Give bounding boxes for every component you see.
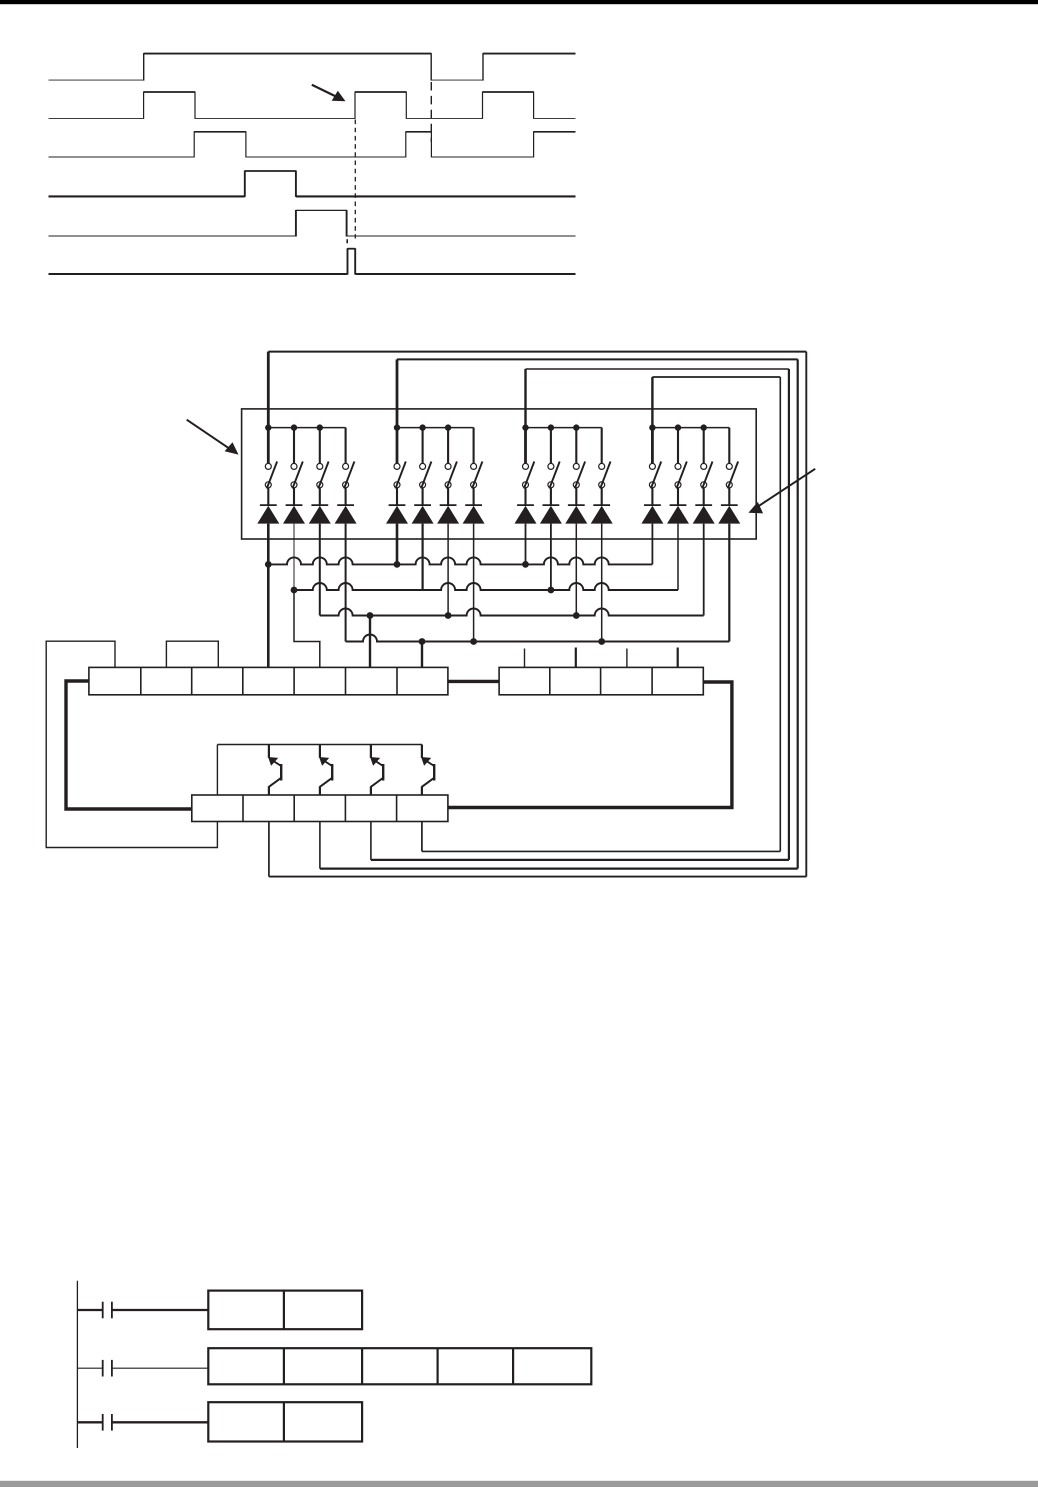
wire: column g2c4 to row4: [473, 524, 475, 642]
wire: column g3c4 to row4: [601, 524, 603, 642]
shift register A (left section, 7 cells): [89, 667, 448, 694]
transistor Q4: [421, 745, 434, 796]
switch S3: [317, 428, 329, 489]
diode D11: [565, 488, 587, 524]
wire: column g2c3 to row3: [447, 524, 449, 616]
diode D16: [718, 488, 740, 524]
transistor Q3: [370, 745, 383, 796]
diode D1: [257, 488, 279, 524]
transistor Q2: [319, 745, 332, 796]
wire: outer left loop: [46, 641, 217, 847]
wire: column g2c2 to row2: [422, 524, 424, 590]
diode D5: [386, 488, 408, 524]
switch S4: [343, 428, 355, 489]
node line group 3: [522, 424, 601, 430]
switch S16: [726, 428, 738, 489]
feedback loop C (cell4 to group3 bus): [371, 369, 789, 860]
diode D13: [641, 488, 663, 524]
wire: row 3 drop to register: [369, 616, 371, 668]
waveform W5: [49, 210, 576, 237]
diode D4: [335, 488, 357, 524]
diode D7: [437, 488, 459, 524]
node line group 4: [649, 424, 729, 430]
switch S8: [471, 428, 483, 489]
rung 2 function block (5 cells): [208, 1348, 591, 1384]
wire: register B cell1 top: [216, 745, 218, 796]
dashed reference line: [430, 82, 432, 142]
switch S2: [291, 428, 303, 489]
rung 3 contact: [77, 1414, 208, 1431]
wire: row 3: [320, 609, 704, 619]
switch S11: [573, 428, 585, 489]
feedback loop B (cell3 to group2 bus): [320, 359, 798, 868]
wire: staple bridge cells 2-3: [166, 641, 218, 667]
wire: column g4c3 to row3: [703, 524, 705, 616]
dash mark at W6 pulse: [346, 239, 348, 243]
switch S6: [420, 428, 432, 489]
stubs above right register cells: [525, 648, 678, 668]
waveform W3: [49, 131, 576, 157]
wire: column g4c1 to row1: [651, 524, 653, 565]
wire: row 4: [346, 635, 730, 645]
rung 1 contact: [77, 1302, 208, 1319]
switch S9: [523, 428, 535, 489]
wire: register A sections link: [448, 680, 499, 683]
wire: row 2: [291, 583, 678, 593]
switch S5: [394, 428, 406, 489]
node line group 2: [394, 424, 474, 430]
shift register B (5 cells): [192, 795, 448, 822]
wire: column g3c3 to row3: [575, 524, 577, 616]
arrow pointer to diode row: [748, 469, 815, 514]
shift register A (right section, 4 cells): [499, 667, 703, 694]
transistor Q1: [268, 745, 281, 796]
wire: row 1: [265, 557, 653, 567]
wire: column g2c1 to row1: [396, 524, 399, 565]
switch S15: [701, 428, 713, 489]
ladder left power rail: [76, 1281, 78, 1448]
diode D8: [463, 488, 485, 524]
rung 3 function block (2 cells): [208, 1402, 362, 1441]
wire: column g4c2 to row2: [677, 524, 679, 590]
diode D10: [540, 488, 562, 524]
thick bus loop left: [66, 681, 192, 809]
diode D3: [309, 488, 331, 524]
rung 1 function block (2 cells): [208, 1291, 362, 1330]
wire: column g1c3 to row3: [319, 524, 321, 616]
switch S10: [548, 428, 560, 489]
switch S13: [649, 428, 661, 489]
wire: column g3c1 to row1: [525, 524, 527, 565]
switch S7: [445, 428, 457, 489]
diode D14: [667, 488, 689, 524]
diode D12: [591, 488, 613, 524]
wire: row 2 drop to register (L-step): [294, 590, 320, 667]
wire: column g3c2 to row2: [550, 524, 552, 590]
rung 2 contact: [77, 1360, 208, 1377]
arrow pointer to key matrix: [187, 420, 239, 455]
diode D15: [693, 488, 715, 524]
waveform W4: [49, 171, 576, 197]
feedback loop A (cell2 to group1 bus): [268, 352, 806, 877]
switch S1: [265, 428, 277, 489]
waveform W1: [49, 53, 576, 81]
wire: column g1c1 to row1 and register: [267, 524, 270, 668]
switch S12: [599, 428, 611, 489]
feedback loop D (cell5 to group4 bus): [422, 377, 780, 851]
diode D9: [515, 488, 537, 524]
key matrix box: [242, 409, 757, 539]
switch S14: [675, 428, 687, 489]
diode D6: [412, 488, 434, 524]
wire: column g1c2 to row2: [293, 524, 295, 590]
waveform W2: [49, 92, 576, 119]
wire: transistor collector bus: [217, 744, 422, 746]
diode D2: [283, 488, 305, 524]
dotted reference line: [354, 120, 356, 239]
wire: column g4c4 to row4: [728, 524, 730, 642]
wire: row 4 drop to register: [421, 642, 423, 668]
wire: column g1c4 to row4: [345, 524, 347, 642]
waveform W6: [49, 248, 576, 274]
arrow pointer (timing): [312, 85, 346, 102]
thick bus loop right: [448, 682, 732, 808]
node line group 1: [265, 424, 346, 430]
